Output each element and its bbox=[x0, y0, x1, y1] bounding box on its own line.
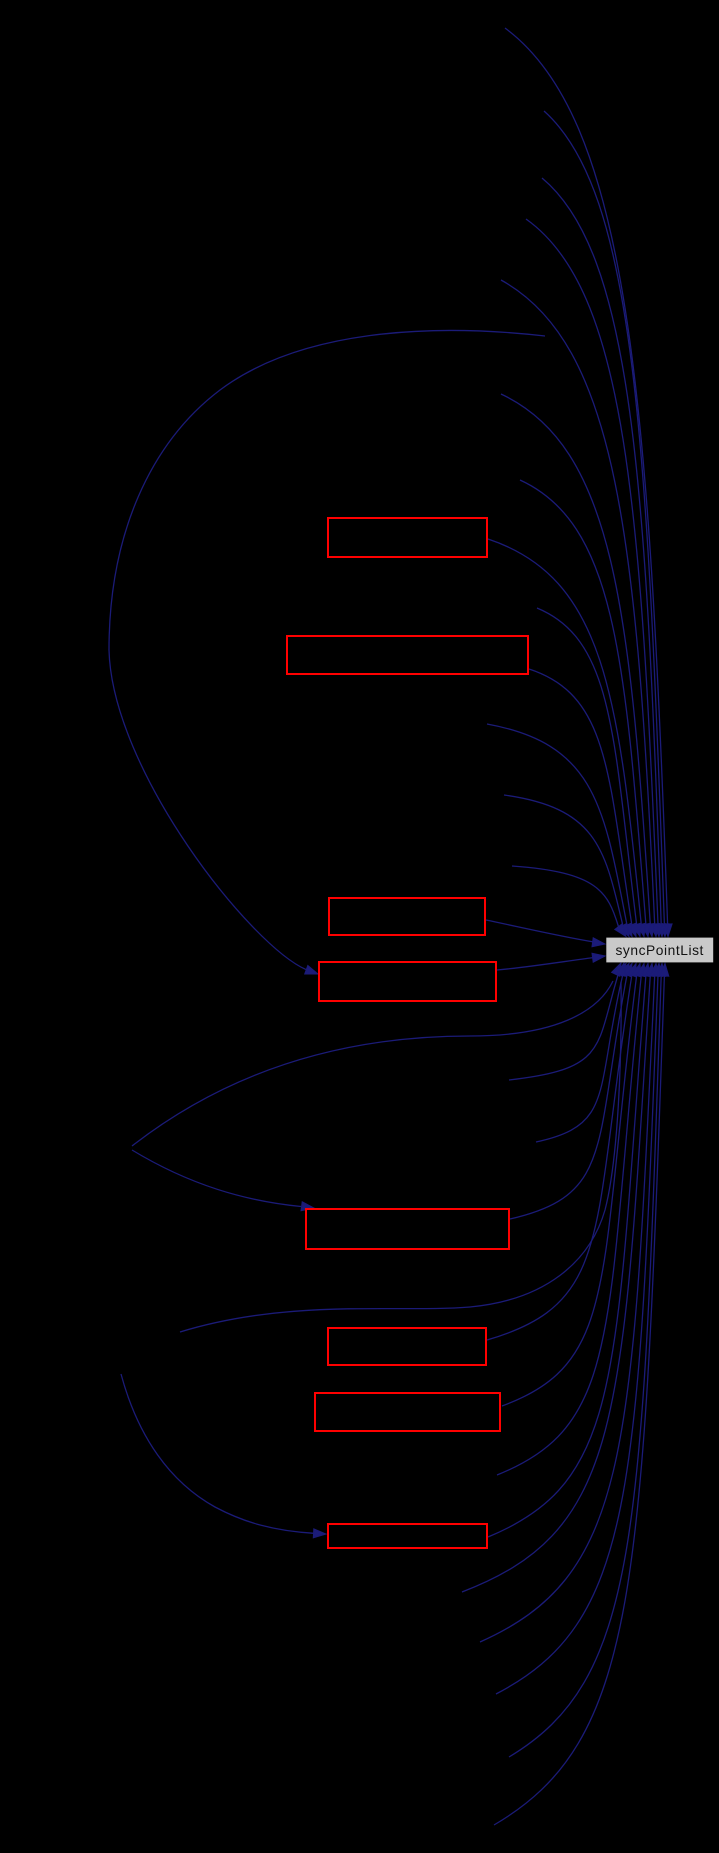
edge box G -> syncPointList bbox=[502, 975, 637, 1406]
edge caller n19 -> syncPointList bbox=[494, 976, 664, 1826]
caller box C bbox=[329, 898, 485, 935]
edge caller n13 -> syncPointList bbox=[536, 974, 623, 1142]
edge box A -> syncPointList bbox=[488, 539, 641, 925]
edge box H -> syncPointList bbox=[488, 975, 646, 1537]
edge caller n21 -> syncPointList bbox=[180, 982, 621, 1332]
edge caller n12 -> syncPointList bbox=[509, 973, 619, 1080]
edge box C -> syncPointList bbox=[486, 920, 594, 942]
edge caller n23 -> box H bbox=[121, 1374, 314, 1533]
edge caller n22 -> box D bbox=[109, 330, 545, 969]
edge caller n18 -> syncPointList bbox=[509, 976, 661, 1758]
edge caller n1 -> syncPointList bbox=[505, 28, 668, 925]
edge caller n10 -> syncPointList bbox=[504, 795, 623, 926]
caller box F bbox=[328, 1328, 486, 1365]
caller box H bbox=[328, 1524, 487, 1548]
node syncPointList bbox=[606, 938, 713, 963]
svg-text:syncPointList: syncPointList bbox=[615, 943, 703, 958]
edge caller n20 -> syncPointList bbox=[132, 981, 613, 1146]
caller box G bbox=[315, 1393, 500, 1431]
edge caller n8 -> syncPointList bbox=[537, 608, 637, 925]
edge caller n5 -> syncPointList bbox=[501, 280, 655, 925]
edge caller n16 -> syncPointList bbox=[480, 975, 655, 1642]
edge caller n7 -> syncPointList bbox=[520, 480, 646, 925]
caller box A bbox=[328, 518, 487, 557]
caller box E bbox=[306, 1209, 509, 1249]
edge caller n2 -> syncPointList bbox=[544, 111, 664, 925]
edge caller n6 -> syncPointList bbox=[501, 394, 650, 925]
caller box D bbox=[319, 962, 496, 1001]
edge caller n4 -> syncPointList bbox=[526, 219, 658, 925]
caller box B bbox=[287, 636, 528, 674]
edge caller n17 -> syncPointList bbox=[496, 976, 658, 1695]
edge caller n11 -> syncPointList bbox=[512, 866, 619, 927]
edge caller n15 -> syncPointList bbox=[462, 975, 650, 1592]
edge caller n14 -> syncPointList bbox=[497, 975, 641, 1475]
edge box B -> syncPointList bbox=[529, 669, 632, 925]
edge caller n20 -> box E bbox=[132, 1150, 301, 1207]
edge caller n3 -> syncPointList bbox=[542, 178, 661, 925]
edge box D -> syncPointList bbox=[497, 958, 594, 971]
edge box F -> syncPointList bbox=[487, 975, 632, 1340]
edge caller n9 -> syncPointList bbox=[487, 724, 627, 926]
edge box E -> syncPointList bbox=[510, 975, 627, 1220]
